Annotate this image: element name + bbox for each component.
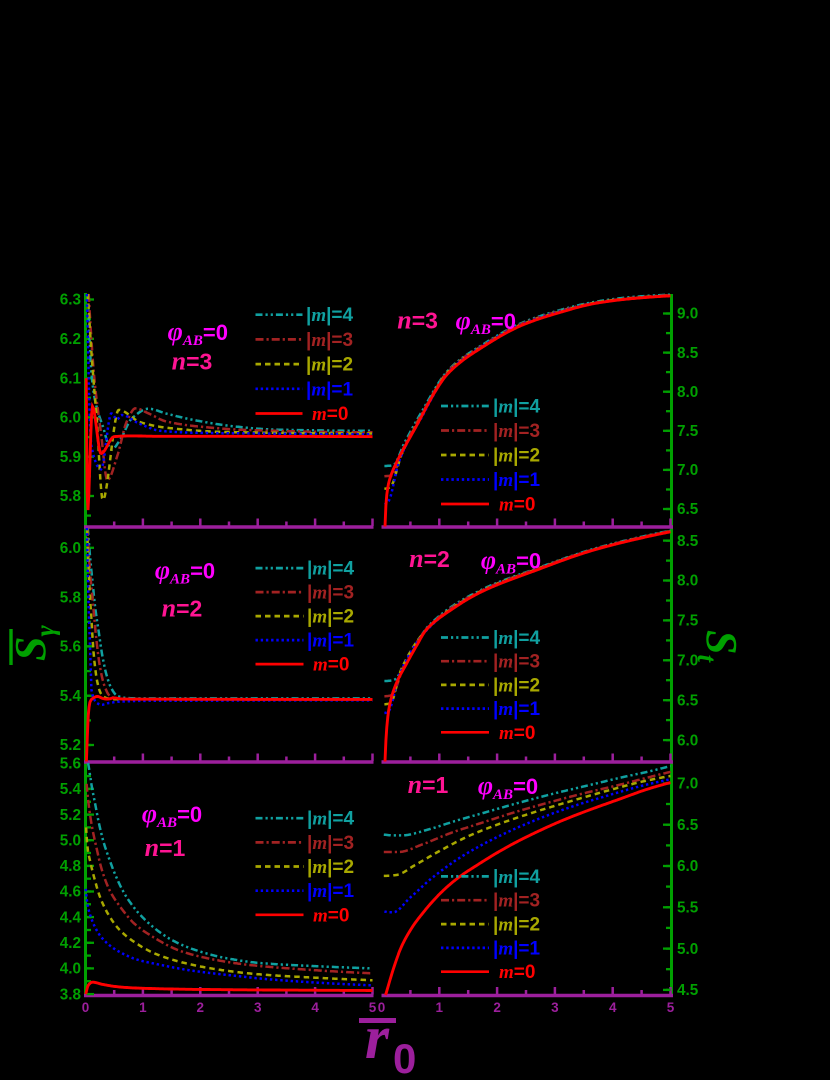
svg-text:|m|=4: |m|=4 [307, 809, 355, 830]
svg-text:r: r [365, 1004, 390, 1072]
curve ML red [86, 697, 372, 762]
curve TR maroon [384, 295, 670, 476]
svg-text:m=0: m=0 [499, 962, 535, 983]
curve ML maroon [88, 528, 373, 699]
curve MR olive [384, 531, 670, 704]
svg-text:6.0: 6.0 [677, 732, 698, 749]
curve BR red [386, 783, 671, 995]
svg-text:4.2: 4.2 [60, 935, 81, 952]
legend TL [256, 313, 303, 316]
svg-text:m=0: m=0 [499, 723, 535, 744]
svg-text:8.0: 8.0 [677, 573, 698, 590]
curve BL red [86, 982, 373, 994]
curve ML blue [87, 528, 373, 705]
curve TL blue [87, 294, 373, 469]
svg-text:7.5: 7.5 [677, 423, 699, 440]
curve TR olive [384, 296, 670, 489]
svg-text:4.5: 4.5 [677, 982, 699, 999]
svg-text:|m|=3: |m|=3 [493, 421, 540, 442]
svg-text:0: 0 [393, 1035, 416, 1075]
svg-text:n=2: n=2 [409, 544, 450, 573]
svg-text:|m|=1: |m|=1 [306, 379, 354, 400]
svg-text:6.5: 6.5 [677, 501, 699, 518]
svg-text:|m|=1: |m|=1 [493, 470, 541, 491]
curve MR blue [384, 532, 670, 713]
svg-text:5.8: 5.8 [60, 488, 82, 505]
curve BR teal [384, 766, 671, 835]
svg-text:2: 2 [493, 1000, 501, 1015]
svg-text:4.4: 4.4 [60, 909, 82, 926]
svg-text:|m|=4: |m|=4 [493, 397, 541, 418]
svg-text:1: 1 [139, 1000, 147, 1015]
svg-text:6.0: 6.0 [677, 858, 698, 875]
svg-text:|m|=2: |m|=2 [307, 607, 354, 628]
y-axis ticks [87, 514, 92, 516]
svg-text:4.8: 4.8 [60, 858, 82, 875]
svg-text:8.5: 8.5 [677, 345, 699, 362]
svg-text:5.0: 5.0 [677, 941, 698, 958]
svg-text:7.0: 7.0 [677, 462, 698, 479]
svg-text:|m|=1: |m|=1 [307, 631, 355, 652]
svg-text:|m|=1: |m|=1 [493, 938, 541, 959]
svg-text:8.5: 8.5 [677, 533, 699, 550]
curve ML olive [87, 528, 372, 699]
svg-text:3: 3 [551, 1000, 559, 1015]
svg-text:|m|=2: |m|=2 [306, 355, 353, 376]
curve MR red [385, 532, 671, 762]
svg-text:5.8: 5.8 [60, 589, 82, 606]
svg-text:|m|=3: |m|=3 [307, 833, 354, 854]
curve BL maroon [87, 784, 373, 974]
svg-text:|m|=2: |m|=2 [493, 915, 540, 936]
curve MR teal [384, 531, 670, 681]
svg-text:|m|=1: |m|=1 [493, 699, 541, 720]
legend BR [441, 875, 489, 878]
curve BL teal [88, 763, 372, 968]
svg-text:5.2: 5.2 [60, 807, 81, 824]
legend MR [441, 636, 489, 639]
svg-text:|m|=3: |m|=3 [307, 583, 354, 604]
svg-text:5.4: 5.4 [60, 781, 82, 798]
svg-text:n=3: n=3 [397, 306, 438, 335]
svg-text:4: 4 [311, 1000, 319, 1015]
curve TL olive [88, 294, 373, 500]
curve BR blue [384, 779, 670, 912]
svg-text:5: 5 [667, 1000, 675, 1015]
legend BL [256, 817, 304, 820]
curve BL olive [86, 827, 372, 980]
curve BR olive [384, 776, 671, 876]
svg-text:4.6: 4.6 [60, 884, 81, 901]
svg-text:6.2: 6.2 [60, 331, 81, 348]
svg-text:5.4: 5.4 [60, 688, 82, 705]
svg-text:|m|=2: |m|=2 [493, 675, 540, 696]
curve TR blue [384, 296, 670, 505]
svg-text:m=0: m=0 [313, 655, 349, 676]
svg-text:6.0: 6.0 [60, 410, 81, 427]
curve TR red [385, 296, 671, 527]
svg-text:6.5: 6.5 [677, 692, 699, 709]
svg-text:|m|=4: |m|=4 [307, 559, 355, 580]
svg-text:5.5: 5.5 [677, 900, 699, 917]
svg-text:6.3: 6.3 [60, 292, 81, 309]
curve MR maroon [384, 531, 670, 696]
svg-text:n=3: n=3 [172, 347, 213, 376]
x-axis lines (purple) [84, 525, 374, 528]
legend ML [256, 567, 304, 570]
svg-text:|m|=3: |m|=3 [306, 330, 353, 351]
svg-text:m=0: m=0 [313, 905, 349, 926]
svg-text:4: 4 [609, 1000, 617, 1015]
curve BL blue [86, 889, 373, 985]
svg-text:5.2: 5.2 [60, 737, 81, 754]
svg-text:|m|=4: |m|=4 [493, 628, 541, 649]
curve TR teal [384, 295, 670, 466]
svg-text:7.0: 7.0 [677, 776, 698, 793]
svg-text:5.9: 5.9 [60, 449, 81, 466]
svg-text:9.0: 9.0 [677, 306, 698, 323]
curve ML teal [88, 528, 373, 698]
left y-axis (green) [84, 293, 87, 997]
svg-text:|m|=3: |m|=3 [493, 891, 540, 912]
legend TR [441, 405, 489, 408]
x-axis ticks [113, 522, 116, 527]
svg-text:6.1: 6.1 [60, 370, 82, 387]
svg-text:|m|=3: |m|=3 [493, 652, 540, 673]
svg-text:3: 3 [254, 1000, 262, 1015]
svg-text:5.0: 5.0 [60, 832, 81, 849]
curve TL red [86, 378, 372, 510]
svg-text:n=2: n=2 [162, 594, 203, 623]
svg-text:3.8: 3.8 [60, 986, 82, 1003]
svg-text:|m|=2: |m|=2 [493, 446, 540, 467]
svg-text:8.0: 8.0 [677, 384, 698, 401]
svg-text:5.6: 5.6 [60, 756, 81, 773]
svg-text:0: 0 [82, 1000, 90, 1015]
svg-text:|m|=2: |m|=2 [307, 857, 354, 878]
svg-text:5.6: 5.6 [60, 639, 81, 656]
svg-text:6.0: 6.0 [60, 540, 81, 557]
svg-text:4.0: 4.0 [60, 961, 81, 978]
svg-text:|m|=4: |m|=4 [306, 305, 354, 326]
svg-text:7.5: 7.5 [677, 613, 699, 630]
curve TL teal [88, 294, 373, 450]
left axis title S-bar gamma [6, 625, 60, 665]
svg-text:m=0: m=0 [312, 404, 348, 425]
curve BR maroon [384, 772, 671, 852]
svg-text:6.5: 6.5 [677, 817, 699, 834]
svg-text:|m|=4: |m|=4 [493, 867, 541, 888]
curve TL maroon [89, 294, 373, 480]
svg-text:n=1: n=1 [408, 770, 449, 799]
right y-axis (green) [670, 294, 673, 997]
svg-text:1: 1 [436, 1000, 444, 1015]
svg-text:2: 2 [197, 1000, 205, 1015]
right axis title S t [692, 630, 746, 663]
svg-text:|m|=1: |m|=1 [307, 881, 355, 902]
svg-text:m=0: m=0 [499, 495, 535, 516]
svg-text:n=1: n=1 [145, 833, 186, 862]
